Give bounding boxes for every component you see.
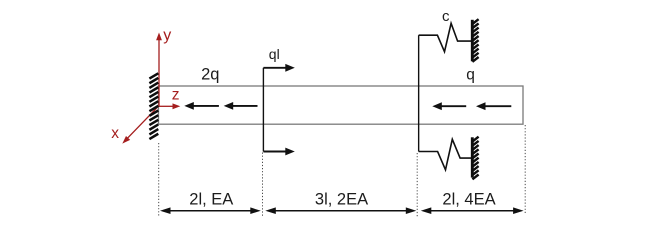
svg-text:x: x [111, 125, 119, 142]
extension line at 7l (right end) [524, 125, 526, 215]
distributed load 2q arrow 1 [184, 102, 219, 110]
svg-text:2l, 4EA: 2l, 4EA [442, 190, 495, 208]
force ql bottom arrow [263, 148, 294, 156]
dimension arrow 2l [160, 207, 261, 214]
dimension arrow 2l right [421, 207, 524, 214]
svg-text:2l, EA: 2l, EA [189, 190, 233, 208]
extension line at 5l [416, 153, 418, 217]
x-axis [122, 106, 158, 143]
distributed load q arrow 1 [432, 102, 466, 110]
spring c (top) [419, 23, 472, 51]
distributed load 2q arrow 2 [224, 102, 258, 110]
bottom spring wall (hatched) [472, 137, 478, 180]
right junction line [418, 35, 420, 151]
y-axis [156, 33, 162, 107]
z-axis [158, 103, 180, 109]
distributed load q arrow 2 [476, 102, 511, 110]
svg-text:2q: 2q [201, 66, 219, 84]
dimension arrow 3l [265, 207, 416, 214]
extension line at 2l [262, 153, 264, 217]
svg-text:z: z [172, 87, 180, 104]
svg-text:ql: ql [269, 46, 280, 62]
extension line at x=0 (wall) [158, 143, 160, 217]
junction line at 2l (force application line) [262, 68, 264, 152]
svg-text:y: y [163, 27, 171, 44]
svg-text:3l, 2EA: 3l, 2EA [315, 190, 368, 208]
top spring wall (hatched) [472, 19, 478, 62]
svg-text:q: q [466, 67, 475, 84]
force ql top arrow [263, 64, 294, 72]
bar outline (beam) [159, 86, 524, 124]
bottom spring [419, 139, 471, 170]
fixed support wall (left, hatched) [149, 73, 158, 139]
svg-text:c: c [442, 8, 450, 25]
